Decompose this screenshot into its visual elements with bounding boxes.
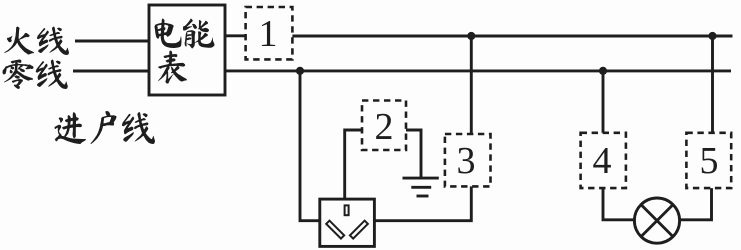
wire box 4 to lamp xyxy=(603,188,634,220)
svg-text:2: 2 xyxy=(375,106,394,148)
label huoxian (live wire) xyxy=(4,26,69,55)
wire box 2 to ground symbol xyxy=(406,130,421,178)
lamp (circle with X) xyxy=(634,198,679,243)
svg-text:1: 1 xyxy=(259,13,278,55)
label lingxian (neutral wire) xyxy=(3,60,68,89)
meter text dianneng biao xyxy=(154,19,214,84)
meter box U1 xyxy=(149,5,225,95)
svg-text:4: 4 xyxy=(593,140,612,182)
junction dot on live for box 5 branch xyxy=(708,32,716,40)
wire neutral bus from meter to right end xyxy=(225,69,731,72)
junction dot on neutral for socket branch xyxy=(296,67,304,75)
wire live input from huoxian label to meter xyxy=(75,40,150,43)
box 4 (dashed) xyxy=(581,133,626,188)
wire live meter output to box 1 xyxy=(225,34,246,37)
wire live bus from box 1 to right end xyxy=(292,35,732,38)
socket (three-hole outlet) xyxy=(320,199,375,246)
box 5 (dashed) xyxy=(686,133,731,188)
wire live drop to box 5 (crosses neutral) xyxy=(711,36,714,133)
wire neutral drop to box 4 xyxy=(602,71,605,133)
label jinhuxian (service entrance line) xyxy=(54,111,154,144)
box 2 (dashed) xyxy=(362,101,406,151)
svg-text:5: 5 xyxy=(700,140,719,182)
ground symbol xyxy=(403,178,439,196)
wire neutral input from lingxian label to meter xyxy=(73,70,150,73)
box 1 (dashed, fuse/switch position) xyxy=(246,7,293,59)
wire box 5 to lamp xyxy=(680,188,711,220)
junction dot on neutral for box 4 branch xyxy=(599,67,607,75)
wire neutral drop to socket left terminal xyxy=(300,71,320,221)
wire box 3 to socket right terminal xyxy=(374,186,471,220)
wire live drop to box 3 (crosses neutral) xyxy=(470,36,473,134)
wire box 2 to socket earth pin xyxy=(345,130,362,199)
junction dot on live for box 3 branch xyxy=(467,32,475,40)
box 3 (dashed) xyxy=(445,134,491,186)
svg-text:3: 3 xyxy=(457,140,476,182)
